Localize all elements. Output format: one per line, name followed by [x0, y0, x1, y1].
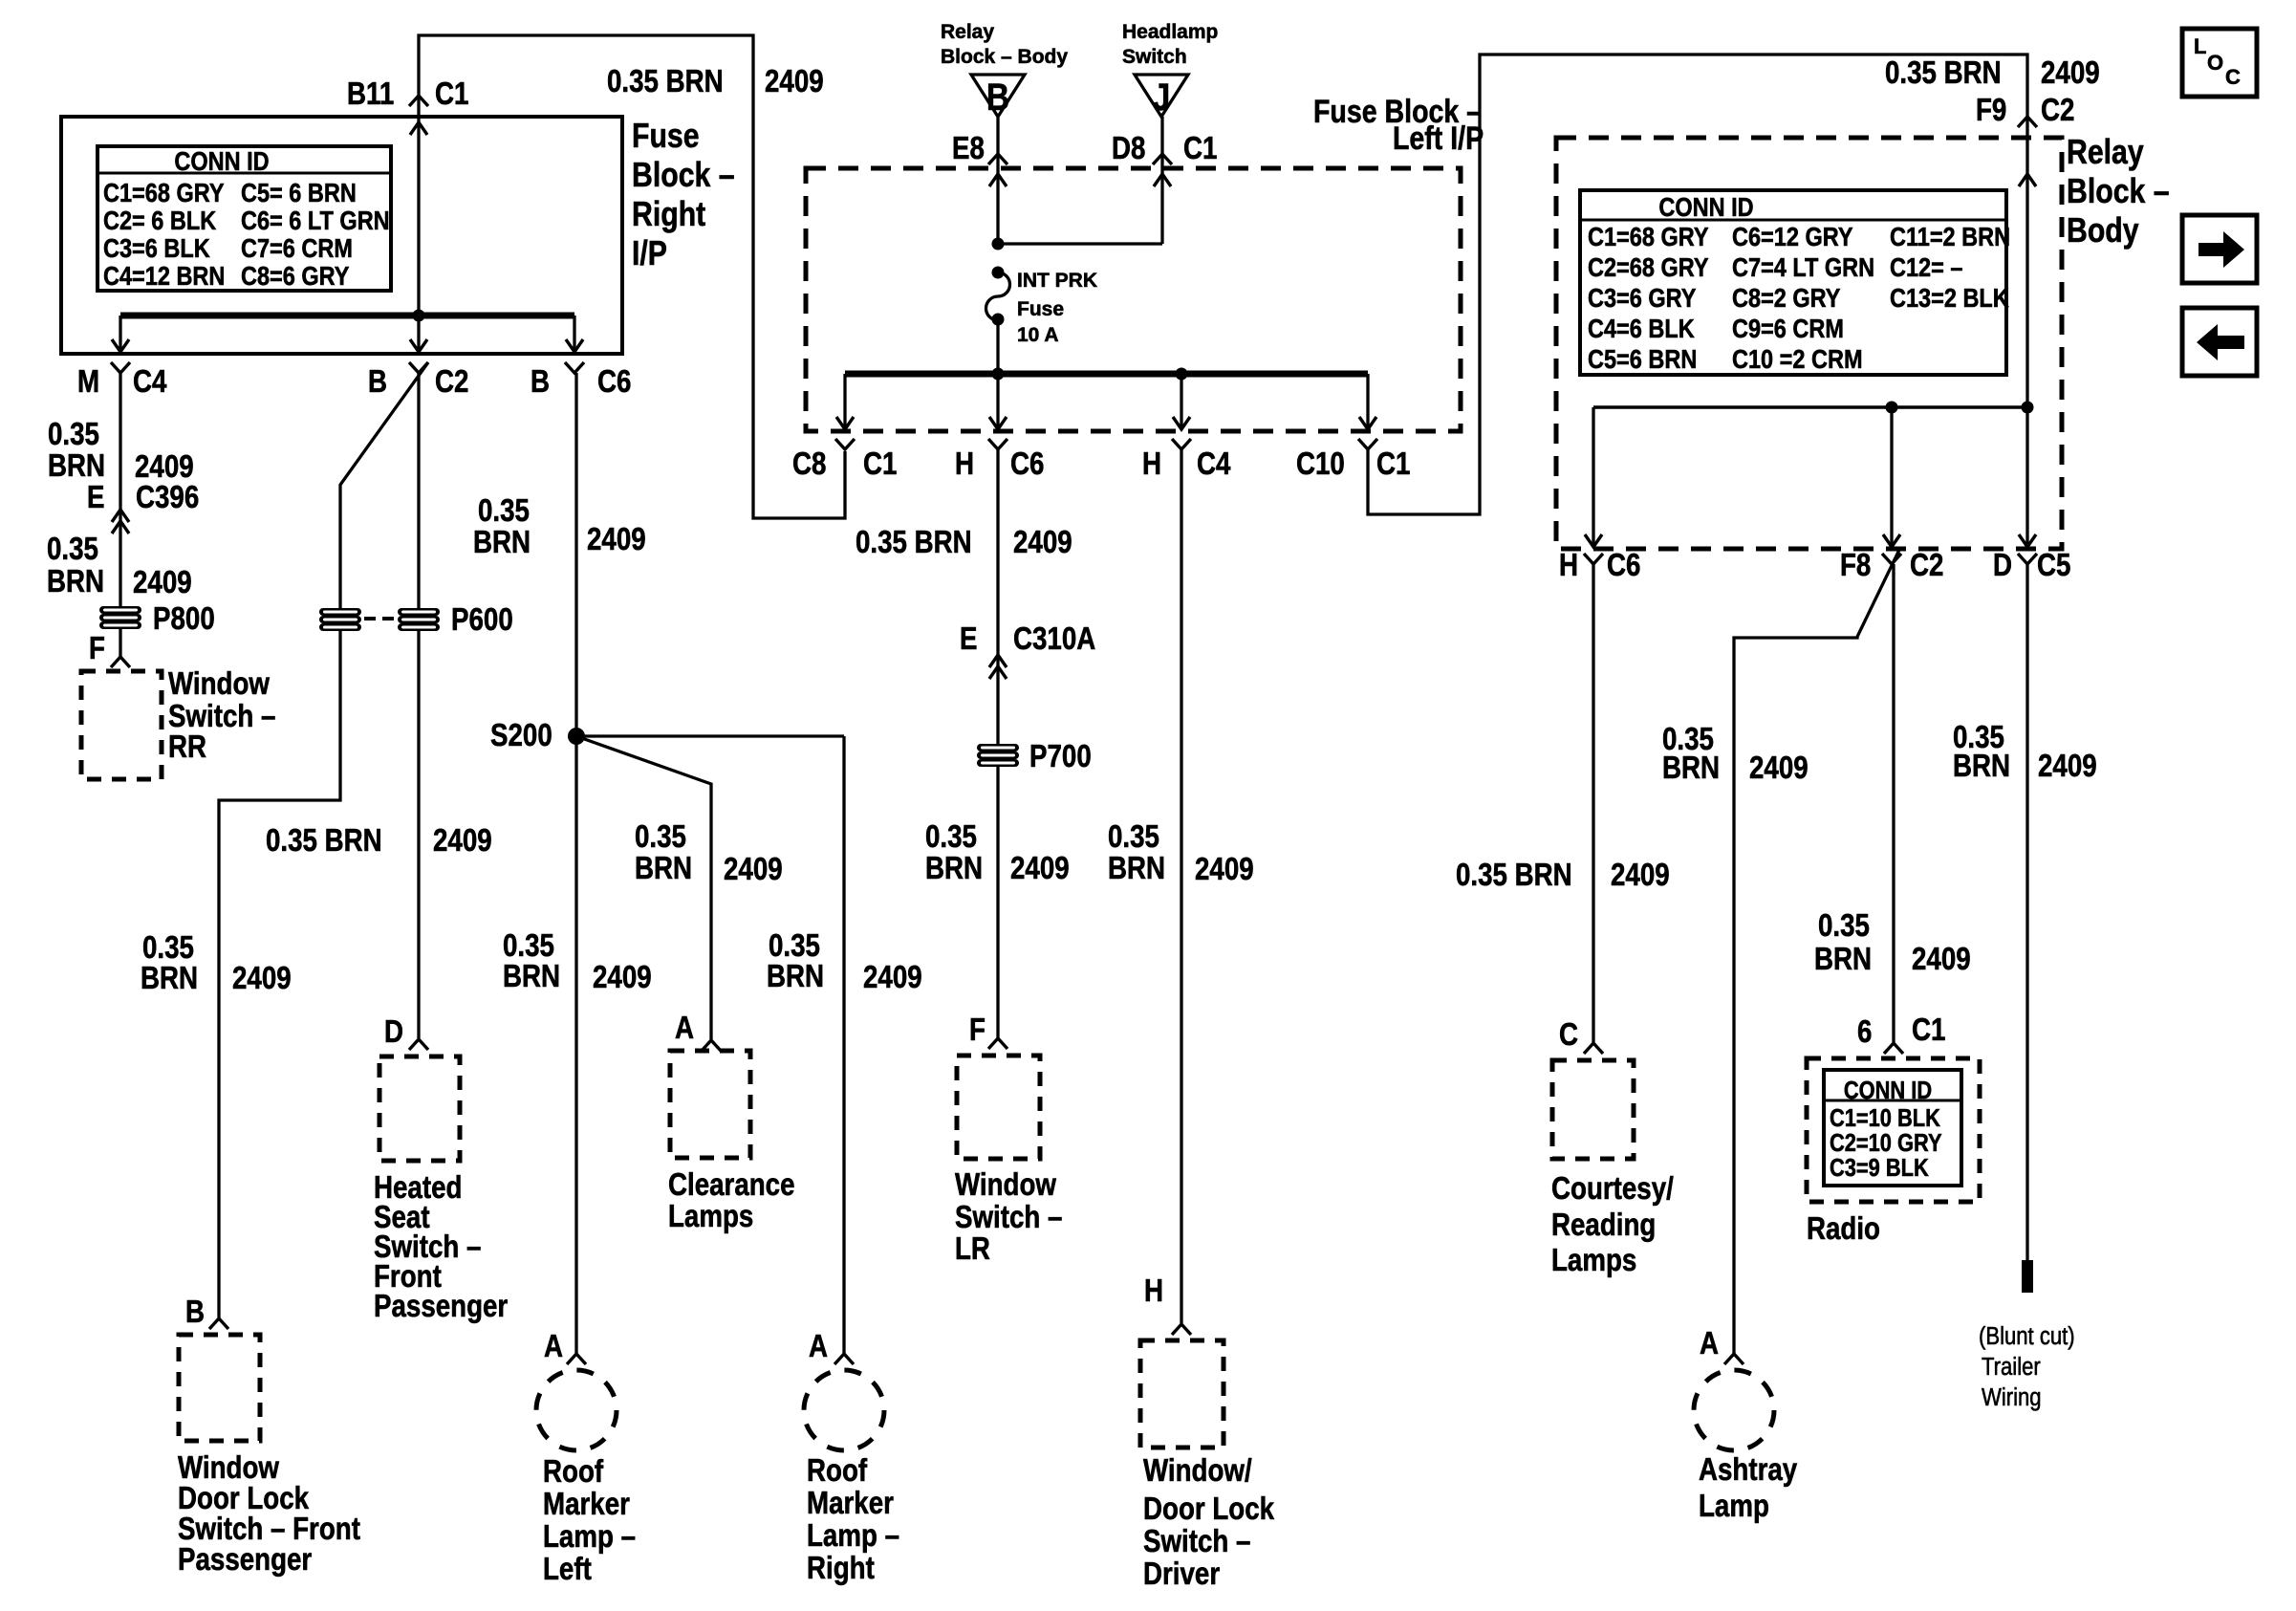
- svg-text:2409: 2409: [2038, 749, 2097, 784]
- svg-text:Fuse: Fuse: [1017, 298, 1064, 320]
- svg-text:0.35 BRN: 0.35 BRN: [607, 64, 724, 99]
- svg-text:C1=68 GRY: C1=68 GRY: [1588, 223, 1709, 251]
- svg-text:BRN: BRN: [48, 448, 105, 484]
- svg-text:Driver: Driver: [1143, 1557, 1220, 1592]
- svg-text:2409: 2409: [1010, 851, 1070, 886]
- svg-text:BRN: BRN: [1953, 749, 2010, 784]
- svg-text:M: M: [77, 364, 99, 400]
- svg-text:0.35 BRN: 0.35 BRN: [856, 525, 972, 560]
- svg-text:0.35: 0.35: [1818, 908, 1870, 944]
- svg-text:C1: C1: [1183, 131, 1217, 166]
- svg-text:Relay: Relay: [941, 21, 994, 43]
- svg-text:A: A: [1700, 1326, 1719, 1361]
- svg-text:BRN: BRN: [473, 525, 531, 560]
- svg-text:0.35: 0.35: [478, 493, 530, 529]
- svg-text:CONN ID: CONN ID: [174, 147, 269, 176]
- svg-text:C8=2 GRY: C8=2 GRY: [1732, 284, 1840, 313]
- svg-text:C3=9 BLK: C3=9 BLK: [1830, 1154, 1929, 1182]
- svg-text:O: O: [2207, 51, 2223, 75]
- svg-text:10 A: 10 A: [1017, 324, 1059, 346]
- svg-text:C8: C8: [792, 446, 826, 482]
- svg-text:F8: F8: [1840, 548, 1871, 583]
- svg-text:2409: 2409: [1195, 852, 1254, 887]
- svg-text:Lamps: Lamps: [1551, 1243, 1636, 1278]
- svg-text:Right: Right: [632, 196, 705, 234]
- svg-text:Window: Window: [168, 666, 270, 702]
- svg-text:C1: C1: [1376, 446, 1410, 482]
- svg-text:C2: C2: [435, 364, 468, 400]
- svg-text:Passenger: Passenger: [178, 1542, 312, 1578]
- svg-text:Marker: Marker: [807, 1486, 894, 1521]
- svg-text:C7=6 CRM: C7=6 CRM: [241, 234, 353, 263]
- svg-text:D8: D8: [1112, 131, 1145, 166]
- svg-text:Lamps: Lamps: [668, 1199, 753, 1234]
- svg-text:I/P: I/P: [632, 235, 667, 273]
- svg-text:Trailer: Trailer: [1982, 1353, 2041, 1381]
- svg-text:Roof: Roof: [807, 1453, 868, 1489]
- svg-text:C1: C1: [863, 446, 897, 482]
- svg-text:2409: 2409: [587, 522, 646, 557]
- svg-text:A: A: [544, 1329, 563, 1364]
- svg-text:E: E: [960, 621, 977, 657]
- svg-text:C13=2 BLK: C13=2 BLK: [1890, 284, 2009, 313]
- svg-text:C12= –: C12= –: [1890, 253, 1962, 282]
- svg-text:0.35: 0.35: [635, 819, 686, 855]
- svg-text:2409: 2409: [765, 64, 824, 99]
- svg-text:0.35: 0.35: [1108, 819, 1159, 855]
- svg-text:Wiring: Wiring: [1982, 1383, 2042, 1411]
- svg-text:Lamp –: Lamp –: [543, 1519, 636, 1555]
- svg-text:Window: Window: [955, 1167, 1056, 1203]
- svg-text:D: D: [384, 1014, 403, 1050]
- svg-text:C5=6 BRN: C5=6 BRN: [1588, 345, 1697, 374]
- svg-text:C4: C4: [1197, 446, 1230, 482]
- svg-text:Block –: Block –: [632, 157, 735, 195]
- svg-text:L: L: [2194, 34, 2206, 58]
- svg-text:0.35: 0.35: [48, 417, 99, 452]
- svg-text:6: 6: [1857, 1014, 1872, 1050]
- svg-text:C2: C2: [1910, 548, 1943, 583]
- svg-text:H: H: [955, 446, 974, 482]
- svg-text:C3=6 GRY: C3=6 GRY: [1588, 284, 1696, 313]
- svg-text:Marker: Marker: [543, 1487, 630, 1522]
- svg-text:Window/: Window/: [1143, 1453, 1252, 1489]
- svg-text:0.35 BRN: 0.35 BRN: [266, 823, 382, 859]
- svg-text:C7=4 LT GRN: C7=4 LT GRN: [1732, 253, 1874, 282]
- svg-text:RR: RR: [168, 729, 206, 765]
- svg-text:Right: Right: [807, 1551, 875, 1586]
- svg-text:C: C: [2225, 65, 2241, 89]
- svg-text:Door Lock: Door Lock: [1143, 1491, 1274, 1527]
- svg-text:C6: C6: [597, 364, 631, 400]
- svg-text:2409: 2409: [863, 960, 922, 995]
- svg-text:F9: F9: [1976, 93, 2006, 128]
- svg-text:F: F: [969, 1012, 986, 1048]
- svg-text:0.35: 0.35: [47, 532, 98, 567]
- svg-text:A: A: [809, 1329, 828, 1364]
- svg-text:Courtesy/: Courtesy/: [1551, 1171, 1674, 1207]
- svg-text:BRN: BRN: [1662, 751, 1720, 786]
- svg-text:Clearance: Clearance: [668, 1167, 795, 1203]
- svg-text:BRN: BRN: [1108, 851, 1165, 886]
- svg-text:Roof: Roof: [543, 1454, 604, 1490]
- svg-text:BRN: BRN: [767, 959, 824, 994]
- svg-text:C1=10 BLK: C1=10 BLK: [1830, 1104, 1940, 1132]
- svg-text:B: B: [368, 364, 387, 400]
- svg-text:2409: 2409: [232, 961, 292, 996]
- svg-text:BRN: BRN: [635, 851, 692, 886]
- svg-text:C2=10 GRY: C2=10 GRY: [1830, 1129, 1942, 1157]
- svg-text:Ashtray: Ashtray: [1699, 1452, 1797, 1488]
- svg-text:B11: B11: [347, 76, 394, 112]
- svg-text:BRN: BRN: [503, 959, 560, 994]
- svg-text:0.35 BRN: 0.35 BRN: [1456, 858, 1572, 893]
- svg-text:2409: 2409: [433, 823, 492, 859]
- svg-text:2409: 2409: [593, 960, 652, 995]
- svg-text:2409: 2409: [1912, 942, 1971, 977]
- svg-text:C6=12 GRY: C6=12 GRY: [1732, 223, 1853, 251]
- svg-text:Block – Body: Block – Body: [941, 46, 1068, 68]
- svg-text:S200: S200: [490, 718, 552, 753]
- svg-text:C3=6 BLK: C3=6 BLK: [103, 234, 210, 263]
- svg-text:B: B: [185, 1295, 205, 1330]
- svg-text:2409: 2409: [1013, 525, 1072, 560]
- svg-text:Switch –: Switch –: [955, 1200, 1062, 1235]
- svg-text:C1: C1: [1912, 1012, 1945, 1048]
- svg-text:C9=6 CRM: C9=6 CRM: [1732, 315, 1844, 343]
- svg-text:C11=2 BRN: C11=2 BRN: [1890, 223, 2010, 251]
- svg-text:0.35: 0.35: [925, 819, 977, 855]
- svg-text:BRN: BRN: [141, 961, 198, 996]
- svg-text:2409: 2409: [133, 565, 192, 600]
- svg-text:Lamp –: Lamp –: [807, 1518, 899, 1554]
- svg-text:Left: Left: [543, 1552, 592, 1587]
- svg-text:Lamp: Lamp: [1699, 1489, 1769, 1524]
- svg-text:Fuse: Fuse: [632, 118, 700, 156]
- svg-text:Reading: Reading: [1551, 1208, 1656, 1243]
- svg-text:E8: E8: [952, 131, 985, 166]
- svg-text:BRN: BRN: [1814, 942, 1872, 977]
- svg-text:INT PRK: INT PRK: [1017, 270, 1097, 292]
- svg-text:LR: LR: [955, 1231, 990, 1267]
- svg-text:C10 =2 CRM: C10 =2 CRM: [1732, 345, 1863, 374]
- svg-text:Left I/P: Left I/P: [1393, 120, 1484, 157]
- svg-text:C8=6 GRY: C8=6 GRY: [241, 262, 349, 291]
- svg-text:Passenger: Passenger: [374, 1289, 508, 1324]
- svg-text:BRN: BRN: [925, 851, 983, 886]
- svg-text:Switch: Switch: [1122, 46, 1187, 68]
- svg-text:C4=6 BLK: C4=6 BLK: [1588, 315, 1695, 343]
- svg-text:E: E: [87, 480, 104, 515]
- svg-text:H: H: [1142, 446, 1161, 482]
- svg-text:Body: Body: [2067, 212, 2139, 250]
- svg-text:Switch –: Switch –: [1143, 1524, 1250, 1559]
- svg-text:H: H: [1559, 548, 1578, 583]
- svg-text:2409: 2409: [724, 852, 783, 887]
- svg-text:C6= 6 LT GRN: C6= 6 LT GRN: [241, 207, 390, 235]
- svg-text:A: A: [675, 1011, 694, 1046]
- svg-text:F: F: [89, 631, 105, 666]
- svg-text:2409: 2409: [1611, 858, 1670, 893]
- svg-text:C5: C5: [2037, 548, 2070, 583]
- svg-text:C2=68 GRY: C2=68 GRY: [1588, 253, 1709, 282]
- svg-text:P700: P700: [1029, 739, 1092, 774]
- svg-text:C2= 6 BLK: C2= 6 BLK: [103, 207, 217, 235]
- svg-text:C: C: [1559, 1017, 1578, 1053]
- svg-text:C396: C396: [136, 480, 199, 515]
- svg-text:C310A: C310A: [1013, 621, 1095, 657]
- svg-text:(Blunt cut): (Blunt cut): [1979, 1322, 2075, 1350]
- svg-text:Relay: Relay: [2067, 134, 2144, 172]
- svg-text:Headlamp: Headlamp: [1122, 21, 1218, 43]
- svg-text:C6: C6: [1010, 446, 1044, 482]
- svg-text:0.35 BRN: 0.35 BRN: [1885, 55, 2002, 91]
- svg-text:Block –: Block –: [2067, 173, 2170, 211]
- svg-text:C10: C10: [1296, 446, 1345, 482]
- svg-text:P800: P800: [153, 601, 215, 637]
- svg-text:C6: C6: [1607, 548, 1640, 583]
- svg-text:P600: P600: [451, 602, 513, 638]
- svg-text:CONN ID: CONN ID: [1658, 193, 1753, 222]
- svg-text:B: B: [986, 76, 1009, 118]
- svg-text:C1: C1: [435, 76, 468, 112]
- svg-text:C4=12 BRN: C4=12 BRN: [103, 262, 225, 291]
- svg-text:C2: C2: [2041, 93, 2074, 128]
- svg-text:C5= 6 BRN: C5= 6 BRN: [241, 179, 357, 207]
- svg-text:J: J: [1153, 76, 1171, 118]
- svg-text:H: H: [1144, 1274, 1163, 1309]
- svg-text:B: B: [531, 364, 550, 400]
- svg-text:BRN: BRN: [47, 564, 104, 599]
- svg-text:2409: 2409: [2041, 55, 2100, 91]
- svg-text:Radio: Radio: [1807, 1211, 1880, 1247]
- svg-text:2409: 2409: [1749, 751, 1809, 786]
- svg-text:C4: C4: [133, 364, 166, 400]
- svg-text:C1=68 GRY: C1=68 GRY: [103, 179, 225, 207]
- svg-text:D: D: [1993, 548, 2012, 583]
- svg-text:CONN ID: CONN ID: [1844, 1077, 1932, 1104]
